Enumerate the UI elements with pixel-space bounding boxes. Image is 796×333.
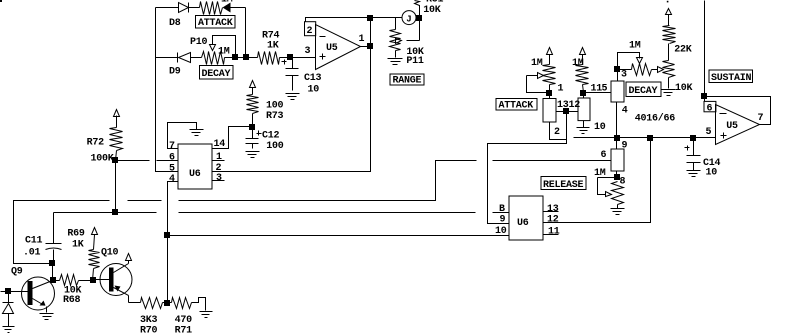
junction pot 1M B bottom	[580, 90, 586, 96]
svg-text:.01: .01	[23, 248, 41, 259]
potentiometer 1M release	[594, 168, 624, 209]
pin 1 stub of U6	[213, 152, 225, 163]
ground after R71	[200, 312, 213, 318]
IC U6 right half	[509, 196, 543, 240]
junction R68 / R69 / Q10 base	[90, 277, 96, 283]
wire U5 output	[361, 46, 371, 48]
svg-text:3: 3	[305, 46, 311, 57]
svg-text:DECAY: DECAY	[202, 69, 231, 80]
svg-text:13: 13	[547, 204, 559, 215]
svg-text:SUSTAIN: SUSTAIN	[711, 73, 752, 84]
pin 5 wire of U5 right	[694, 127, 716, 138]
svg-text:1: 1	[359, 34, 365, 45]
pin 6 box of U5 right	[704, 97, 716, 115]
ground under release pot	[611, 209, 625, 215]
svg-text:8: 8	[620, 177, 626, 188]
pin 3 stub of U6	[213, 173, 225, 184]
resistor R69 1K	[67, 228, 99, 280]
bus sustain row y=137.7	[574, 137, 694, 139]
jack J circle	[402, 11, 416, 25]
diode D8	[169, 3, 200, 30]
svg-text:1M: 1M	[531, 58, 543, 69]
svg-text:U5: U5	[326, 43, 338, 54]
svg-text:7: 7	[169, 141, 175, 152]
analog switch box 3 of 4016	[611, 70, 628, 138]
potentiometer P10 1M DECAY wiper arrow	[210, 36, 236, 58]
svg-text:3K3: 3K3	[140, 315, 158, 326]
junction R73 / C12 / pin14	[249, 124, 255, 130]
pin 4 of U6 wire turning down	[168, 174, 179, 303]
svg-text:10: 10	[706, 168, 718, 179]
pin 2 box of op-amp U5	[305, 22, 316, 37]
junction U5 right pin 6	[701, 93, 707, 99]
wire jack node down to P11 wiper	[419, 18, 421, 41]
svg-text:5: 5	[169, 164, 175, 175]
svg-text:DECAY: DECAY	[629, 86, 658, 97]
svg-text:100K: 100K	[91, 154, 114, 165]
diode D9	[156, 53, 202, 78]
supply arrow above R72	[114, 110, 120, 117]
junction C11 bottom / bus A	[49, 260, 55, 266]
wire left vertical from attack line down to U6 pin 5	[156, 8, 179, 172]
svg-text:7: 7	[758, 113, 764, 124]
capacitor C12 100 polarized	[246, 127, 284, 152]
pin 7 of U6 with ground	[168, 123, 197, 153]
label box SUSTAIN	[709, 70, 753, 84]
label 1M of P10	[218, 47, 230, 58]
wire to op-amp pin 3	[291, 46, 316, 58]
ground under box 2	[577, 128, 590, 134]
label pin 1 of U5	[359, 34, 365, 45]
wire pin 12 to sustain bus	[544, 138, 651, 223]
resistor R71 470	[168, 298, 206, 333]
svg-text:Q10: Q10	[101, 247, 119, 258]
svg-text:10K: 10K	[423, 5, 441, 16]
svg-text:1M: 1M	[629, 41, 641, 52]
junction pot 1M attack bottom	[546, 90, 552, 96]
ground at U6 pin 7	[190, 130, 204, 136]
potentiometer 1M decay right	[618, 41, 652, 76]
wire sustain vertical from top edge	[704, 1, 706, 97]
wire top attack row	[156, 7, 179, 9]
svg-text:1M: 1M	[221, 0, 233, 6]
junction U5 output	[367, 43, 373, 49]
wire C11 node down to Q9 collector node	[52, 264, 54, 281]
supply arrow above 22K	[666, 1, 672, 15]
label 6 of switch box 4016 pin	[601, 150, 607, 161]
svg-text:RANGE: RANGE	[393, 76, 422, 87]
wiper arrow of ATTACK pot	[223, 3, 246, 13]
wire box2 top to box3 pin 5	[584, 84, 612, 95]
svg-text:R71: R71	[175, 326, 193, 333]
svg-text:U6: U6	[189, 169, 201, 180]
svg-text:100: 100	[266, 101, 284, 112]
svg-text:1K: 1K	[72, 240, 84, 251]
svg-text:R70: R70	[140, 326, 158, 333]
svg-text:J: J	[406, 15, 411, 25]
svg-text:1M: 1M	[572, 58, 584, 69]
resistor R72 100K	[87, 116, 123, 165]
resistor R68 10K	[53, 275, 93, 307]
wiper of 1M attack pot	[527, 73, 550, 93]
capacitor C14 10 polarized	[685, 138, 721, 179]
potentiometer P10 resistive element	[202, 52, 225, 65]
svg-text:Q9: Q9	[11, 267, 23, 278]
junction bus C at x=167	[164, 232, 170, 238]
junction decay2 pot node	[614, 66, 620, 72]
analog switch box 2 of 4016	[578, 93, 606, 134]
svg-text:11: 11	[548, 227, 560, 238]
svg-text:100: 100	[266, 141, 284, 152]
wire U5 output down to U6 pin 2	[213, 18, 371, 172]
pin B label and stub	[499, 204, 505, 215]
svg-text:R69: R69	[67, 228, 85, 239]
label box ATTACK	[196, 16, 236, 30]
pin 14 of U6 up to R73/C12 node	[213, 127, 253, 151]
svg-text:10K: 10K	[675, 83, 693, 94]
svg-text:2: 2	[307, 26, 313, 37]
svg-text:D9: D9	[169, 67, 181, 78]
wire bus C (y=235) pin4 net to U6 pin 10	[168, 235, 510, 237]
pin 11 stub of U6 right	[544, 227, 560, 238]
svg-text:4: 4	[169, 174, 175, 185]
ground under C14	[687, 171, 701, 177]
svg-text:470: 470	[175, 315, 193, 326]
junction decay wiper	[232, 54, 238, 60]
wire switch box1 pin2 down-left to U6 right pin 9	[488, 112, 567, 224]
op-amp U5 right	[716, 105, 764, 145]
svg-text:10: 10	[594, 122, 606, 133]
pin 5 label of U6	[169, 164, 175, 175]
svg-text:B: B	[499, 204, 505, 215]
junction pin 5 / C14	[690, 135, 696, 141]
svg-text:P10: P10	[190, 37, 208, 48]
ground under C13	[286, 94, 300, 100]
ground under base diode	[3, 327, 15, 333]
analog switch box 4 of 4016	[611, 138, 626, 188]
wire bus B (y=212) C11 to U6 pin B	[54, 212, 510, 214]
ground under 10K pot	[662, 90, 676, 96]
svg-text:P11: P11	[406, 56, 424, 67]
svg-text:6: 6	[601, 150, 607, 161]
svg-text:5: 5	[602, 84, 608, 95]
svg-text:4016/66: 4016/66	[635, 113, 676, 125]
supply arrow above 1M pot B	[580, 48, 586, 55]
label box RANGE	[390, 74, 424, 87]
svg-text:1: 1	[216, 152, 222, 163]
svg-text:10: 10	[308, 85, 320, 96]
svg-text:D8: D8	[169, 18, 181, 29]
pin 2 label of U6	[216, 163, 222, 174]
capacitor C11 .01	[23, 213, 62, 264]
junction between boxes / control net	[563, 108, 569, 114]
wire Q10 collector to R70	[129, 302, 141, 304]
junction box4 pin 8	[614, 174, 620, 180]
junction R72 bottom	[112, 157, 118, 163]
junction Q9 base / diode	[5, 288, 11, 294]
pin 13 stub of U6 right	[544, 204, 559, 215]
label P10	[190, 37, 208, 48]
pin 6 wire of U6 from R72 node	[116, 153, 179, 164]
svg-text:22K: 22K	[674, 45, 692, 56]
analog switch box 1 of 4016	[543, 84, 564, 123]
junction attack wiper	[243, 54, 249, 60]
diode to ground at Q9 base	[3, 292, 14, 327]
potentiometer 10K sustain	[663, 61, 693, 95]
junction box3 pin4 / box4 pin9	[614, 135, 628, 152]
resistor R51 10K cut at top edge	[415, 0, 444, 18]
supply arrow above R73	[250, 81, 256, 88]
transistor Q10	[93, 247, 133, 302]
svg-text:6: 6	[169, 153, 175, 164]
supply arrow above R69	[92, 228, 98, 235]
svg-text:3: 3	[621, 70, 627, 81]
junction R70 / R71 / pin4 net	[164, 300, 170, 306]
junction U5 output top	[367, 15, 373, 21]
IC U6 left half	[178, 144, 212, 189]
svg-text:1M: 1M	[594, 168, 606, 179]
svg-text:C12: C12	[262, 130, 280, 141]
ground under C12	[246, 152, 260, 158]
svg-text:9: 9	[500, 215, 506, 226]
label box DECAY right	[626, 82, 661, 97]
svg-text:12: 12	[547, 215, 559, 226]
feedback loop U5 right	[705, 97, 771, 125]
wire attack wiper down to decay node	[245, 8, 247, 58]
resistor 1M B	[572, 55, 589, 93]
svg-text:4: 4	[622, 106, 628, 117]
svg-text:ATTACK: ATTACK	[198, 18, 233, 29]
supply arrow above 1M attack pot	[547, 48, 553, 55]
svg-text:1: 1	[558, 84, 564, 95]
svg-text:R73: R73	[266, 111, 284, 122]
svg-text:R68: R68	[63, 295, 81, 306]
svg-text:5: 5	[706, 127, 712, 138]
resistor R74 1K	[258, 31, 291, 65]
label box RELEASE	[541, 177, 586, 192]
pin 9 label of U6 right	[500, 215, 506, 226]
junction R74 / C13 / U5 pin3	[287, 54, 293, 60]
potentiometer P11 10K RANGE	[390, 18, 424, 68]
feedback wire U5 output to pin2	[306, 18, 371, 22]
op-amp U5 left	[316, 25, 361, 70]
svg-text:U5: U5	[726, 121, 738, 132]
capacitor C13 10 polarized	[282, 58, 322, 96]
svg-text:C13: C13	[304, 73, 322, 84]
junction pin12 riser	[647, 135, 653, 141]
transistor Q9	[1, 267, 55, 311]
wire decay node row	[225, 57, 258, 59]
svg-text:1K: 1K	[267, 41, 279, 52]
svg-text:2: 2	[554, 127, 560, 138]
ground under Q9 emitter	[40, 307, 54, 320]
ground under P11	[388, 59, 403, 65]
resistor R73 100	[247, 88, 284, 127]
potentiometer ATTACK (cut at top)	[200, 0, 233, 15]
potentiometer 1M attack	[531, 55, 556, 93]
junction R72 on bus B	[112, 209, 118, 215]
svg-text:R72: R72	[87, 138, 105, 149]
wire decay pot to 10K sustain pot wiper	[652, 67, 664, 73]
page corner mark	[0, 0, 2, 2]
label 4016/66	[635, 113, 676, 125]
label box DECAY	[200, 66, 234, 81]
wire R72 node down to bus B	[115, 161, 117, 213]
resistor 22K	[663, 15, 692, 61]
pin 12 label of U6 right	[547, 215, 559, 226]
resistor R70 3K3	[140, 298, 168, 333]
wire to jack J	[371, 17, 403, 19]
svg-text:6: 6	[707, 103, 713, 114]
junction Q9 collector / R68	[50, 277, 56, 283]
wire between switch boxes 1 and 2	[557, 100, 581, 112]
wire bus A (y=200) from Q9 collector node to switch pin 6 line	[14, 161, 612, 264]
svg-text:ATTACK: ATTACK	[499, 101, 534, 112]
svg-text:10: 10	[495, 226, 507, 237]
svg-text:3: 3	[216, 173, 222, 184]
pin 10 label of U6 right	[495, 226, 507, 237]
supply arrow above Q10 emitter	[126, 254, 132, 261]
label box ATTACK right	[496, 99, 537, 112]
svg-text:RELEASE: RELEASE	[543, 180, 584, 191]
svg-text:C11: C11	[25, 235, 43, 246]
svg-text:11: 11	[591, 84, 603, 95]
svg-text:U6: U6	[517, 218, 529, 229]
junction right of jack	[416, 15, 422, 21]
